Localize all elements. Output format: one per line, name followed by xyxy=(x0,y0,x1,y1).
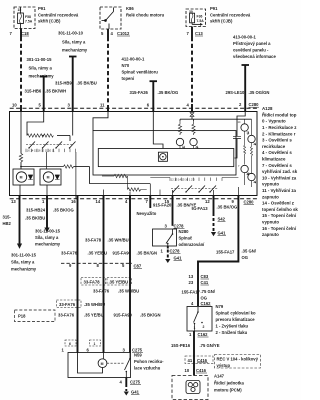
svg-text:315-FA26: 315-FA26 xyxy=(130,90,149,95)
svg-text:301-11-00-10: 301-11-00-10 xyxy=(58,31,84,36)
svg-text:315-HB24: 315-HB24 xyxy=(26,208,46,213)
svg-text:motoru (PCM): motoru (PCM) xyxy=(214,388,242,393)
svg-text:Síla, rámy a: Síla, rámy a xyxy=(62,40,86,45)
svg-text:.35 WH/BU: .35 WH/BU xyxy=(118,289,139,294)
svg-text:14 - Osvětlení z: 14 - Osvětlení z xyxy=(262,201,295,206)
wire label 33-FA78 boxed xyxy=(81,278,106,286)
terminal bar wire pin 2 xyxy=(242,64,250,66)
svg-text:155-FA17: 155-FA17 xyxy=(182,290,201,295)
svg-text:N79: N79 xyxy=(216,304,224,309)
svg-text:výstup: výstup xyxy=(217,363,231,368)
zener symbol under pin 4 xyxy=(190,113,194,117)
svg-text:topení: topení xyxy=(122,76,135,81)
splice box 6 xyxy=(65,340,76,346)
svg-text:OG: OG xyxy=(201,296,208,301)
wire motor to switch xyxy=(107,362,124,364)
note box REC V 104 xyxy=(215,355,261,369)
svg-text:412-00-00-1: 412-00-00-1 xyxy=(122,57,145,62)
motor M2 xyxy=(43,172,53,182)
svg-text:S42: S42 xyxy=(218,217,226,222)
capacitor C xyxy=(233,136,241,138)
lamp column branch 1 xyxy=(244,119,246,123)
svg-text:29S-LE10: 29S-LE10 xyxy=(226,90,246,95)
svg-text:OG: OG xyxy=(242,255,249,260)
wire fuse F36 to module pin 4 (dashed thick) xyxy=(191,27,193,38)
svg-text:33-FA78: 33-FA78 xyxy=(84,279,101,284)
svg-text:301-11-00-15: 301-11-00-15 xyxy=(11,253,37,258)
svg-text:P18: P18 xyxy=(18,314,26,319)
svg-text:C416: C416 xyxy=(196,368,207,373)
lamp branch resistor xyxy=(178,121,181,135)
svg-text:155-FA17: 155-FA17 xyxy=(216,250,235,255)
switch blades bank xyxy=(29,142,35,149)
svg-text:.35 WH/BU: .35 WH/BU xyxy=(108,237,129,242)
wire horizontal to right with resistor xyxy=(21,166,64,168)
internal wire from pin 2 xyxy=(237,111,245,136)
svg-text:41: 41 xyxy=(188,358,193,363)
svg-text:1 - Zvýšení tlaku: 1 - Zvýšení tlaku xyxy=(216,324,249,329)
svg-text:N59: N59 xyxy=(134,353,142,358)
svg-text:C278: C278 xyxy=(174,223,185,228)
svg-text:C416: C416 xyxy=(197,358,208,363)
wire pin 12 to ground xyxy=(213,195,215,216)
wire N280 to ground G41 xyxy=(167,246,169,249)
svg-text:Přístrojový panel a: Přístrojový panel a xyxy=(233,41,271,46)
svg-text:14: 14 xyxy=(96,199,101,204)
svg-text:klimatizace: klimatizace xyxy=(262,157,286,162)
wire inside to motor xyxy=(78,353,103,374)
svg-text:C18: C18 xyxy=(21,31,29,36)
wire label 33-FA76 boxed xyxy=(57,300,82,308)
wire label .35 YE/BU boxed xyxy=(107,278,132,286)
junction nodes on chain xyxy=(42,135,44,137)
svg-text:.35 YE/BU: .35 YE/BU xyxy=(88,251,108,256)
wire pin 13 to ground ref (arrow) xyxy=(19,195,21,244)
svg-text:16: 16 xyxy=(71,199,76,204)
svg-text:7.5A: 7.5A xyxy=(197,19,205,23)
svg-text:Síla, rámy a: Síla, rámy a xyxy=(11,260,35,265)
svg-text:Centrální rozvodová: Centrální rozvodová xyxy=(210,13,251,18)
svg-text:915-FA90: 915-FA90 xyxy=(114,313,133,318)
wire to M2 xyxy=(46,152,48,169)
relay contact blade xyxy=(105,20,107,22)
svg-text:Relé chodu motoru: Relé chodu motoru xyxy=(126,13,165,18)
motor M recirculation xyxy=(98,359,107,368)
svg-text:K86: K86 xyxy=(126,6,134,11)
svg-text:10 - Vyhřívání za: 10 - Vyhřívání za xyxy=(262,175,297,180)
svg-text:11: 11 xyxy=(100,103,105,108)
svg-text:Nevyužito: Nevyužito xyxy=(137,211,157,216)
internal wire from pin 4 xyxy=(191,111,193,113)
svg-text:.35 BK/OG: .35 BK/OG xyxy=(53,208,74,213)
svg-text:.35 BK/BU: .35 BK/BU xyxy=(25,216,45,221)
lamp L2 xyxy=(190,138,197,145)
svg-text:.35 WH/BU: .35 WH/BU xyxy=(84,302,105,307)
svg-text:Pohon recirku-: Pohon recirku- xyxy=(134,359,164,364)
wire pin 14 down xyxy=(103,195,105,353)
svg-text:mechanizmy: mechanizmy xyxy=(62,48,88,53)
svg-text:1: 1 xyxy=(94,342,96,346)
inline connector C87 dashes xyxy=(61,262,132,264)
svg-text:HB2: HB2 xyxy=(3,221,12,226)
internal wire from pin 5 xyxy=(27,111,44,136)
wire M1 to pin 13 xyxy=(19,185,21,199)
svg-text:P91: P91 xyxy=(210,6,218,11)
svg-text:Spínač: Spínač xyxy=(179,236,193,241)
svg-text:N280: N280 xyxy=(179,229,190,234)
takeout box P18 xyxy=(15,310,56,322)
switch position ticks xyxy=(26,149,75,152)
svg-text:C87: C87 xyxy=(134,264,142,269)
svg-text:M: M xyxy=(47,176,50,180)
svg-text:16 - Topení čelní: 16 - Topení čelní xyxy=(262,226,297,231)
PCM symbol xyxy=(186,381,200,394)
svg-text:23: 23 xyxy=(189,280,194,285)
svg-text:C278: C278 xyxy=(170,248,181,253)
motor M1 box xyxy=(13,169,34,185)
svg-text:G41: G41 xyxy=(218,231,227,236)
wire pin 7 stub (unused) xyxy=(149,195,151,208)
relay K86 box xyxy=(100,7,121,29)
svg-text:.35 BK/OG: .35 BK/OG xyxy=(217,204,238,209)
lamp L1 xyxy=(176,138,183,145)
terminal bar wire pin 6 (from N70) xyxy=(150,80,158,82)
lamp branch resistor xyxy=(193,119,195,121)
actuator N59 box xyxy=(68,353,131,378)
wire to module pin 3 xyxy=(72,57,74,112)
svg-text:všeobecná informace: všeobecná informace xyxy=(233,54,276,59)
internal wire from pin 6 xyxy=(153,111,163,149)
switch blade xyxy=(129,353,131,359)
wire bank to pin 16 xyxy=(75,152,77,199)
module A128 inner solid border xyxy=(10,112,258,196)
motor M2 box xyxy=(40,169,61,185)
svg-text:Centrální rozvodová: Centrální rozvodová xyxy=(38,13,79,18)
splice box 1 xyxy=(90,340,101,346)
wire jog down right xyxy=(90,167,151,184)
svg-text:lace vzduchu: lace vzduchu xyxy=(134,366,161,371)
svg-text:C162: C162 xyxy=(201,301,212,306)
svg-text:.35 YE/BU: .35 YE/BU xyxy=(84,313,104,318)
wire stub right bank xyxy=(222,177,238,179)
defrost switch N280 box xyxy=(153,229,177,246)
svg-text:N70: N70 xyxy=(122,63,130,68)
svg-text:.35 OG/GN: .35 OG/GN xyxy=(249,90,270,95)
svg-text:vypnuto: vypnuto xyxy=(262,220,279,225)
svg-text:REC V 104 - kolíkový: REC V 104 - kolíkový xyxy=(217,356,259,361)
svg-text:915-FA20: 915-FA20 xyxy=(153,203,172,208)
svg-text:33-FA78: 33-FA78 xyxy=(85,237,102,242)
svg-text:91-FA13: 91-FA13 xyxy=(192,206,209,211)
svg-text:10: 10 xyxy=(12,103,17,108)
svg-text:.35 BK/GN: .35 BK/GN xyxy=(137,251,157,256)
svg-text:2 - Snížení tlaku: 2 - Snížení tlaku xyxy=(216,330,248,335)
svg-text:C275: C275 xyxy=(130,380,141,385)
svg-text:P91: P91 xyxy=(38,6,46,11)
internal wires to bottom pins xyxy=(103,190,105,199)
N79 switch blade xyxy=(197,307,199,312)
svg-text:C280: C280 xyxy=(249,102,260,107)
PCM A147 box xyxy=(172,376,208,400)
wire M2 to pin 1 xyxy=(46,185,48,199)
lamp L6 xyxy=(248,173,255,180)
svg-text:315-HB6: 315-HB6 xyxy=(25,89,42,94)
svg-text:33-FA76: 33-FA76 xyxy=(58,313,75,318)
svg-text:Spínač cyklování ko: Spínač cyklování ko xyxy=(216,311,256,316)
resistor R (vertical) on pin10 branch xyxy=(19,154,22,163)
wire to module pin 2 xyxy=(244,65,246,111)
mode resistor chain xyxy=(27,134,53,137)
wire pin 4 to ground G41 xyxy=(125,378,127,385)
svg-text:G41: G41 xyxy=(174,256,183,261)
mechanical link dashed xyxy=(171,188,218,190)
wire pin 1 to ground ref (arrow) xyxy=(46,195,48,228)
svg-text:12 13 14 15 16 1 2 3: 12 13 14 15 16 1 2 3 xyxy=(171,178,195,182)
module A128 outer dashed border xyxy=(10,107,257,109)
svg-text:6: 6 xyxy=(69,342,71,346)
wire pin 16 down xyxy=(77,195,79,353)
svg-text:Síla, rámy a: Síla, rámy a xyxy=(35,235,59,240)
logic block inner rect xyxy=(98,149,234,167)
motor M1 xyxy=(16,172,26,182)
lamp column branch 2 xyxy=(251,119,253,135)
svg-text:315-HB9: 315-HB9 xyxy=(55,81,72,86)
wire fuse P91 to module pin 10 (dashed thick) xyxy=(20,29,22,38)
svg-text:2 - Klimatizace r: 2 - Klimatizace r xyxy=(262,131,296,136)
resistor under L3 xyxy=(244,132,246,165)
svg-text:Síla, rámy a: Síla, rámy a xyxy=(29,65,53,70)
svg-text:.35 BK/BU: .35 BK/BU xyxy=(77,81,97,86)
bottom resistor R2 (horizontal) xyxy=(128,188,147,191)
svg-text:C280: C280 xyxy=(244,200,255,205)
diode D2 xyxy=(55,175,60,180)
svg-text:16 14 15 16 10 11 10 11: 16 14 15 16 10 11 10 11 xyxy=(27,149,55,153)
wire pin 4 down xyxy=(129,195,131,353)
svg-text:mechanizmy: mechanizmy xyxy=(11,267,37,272)
connector box 41 C416 xyxy=(185,356,213,364)
svg-text:Spínač ventilátoru: Spínač ventilátoru xyxy=(122,70,159,75)
svg-text:A147: A147 xyxy=(214,374,225,379)
svg-text:.35 BK/OG: .35 BK/OG xyxy=(158,90,179,95)
lamp L4 xyxy=(241,165,248,172)
svg-text:12: 12 xyxy=(205,199,210,204)
fuse arrow out xyxy=(191,23,193,25)
wire to module pin 6 xyxy=(152,81,154,111)
switch blade N280 xyxy=(172,229,174,234)
resistor under L5 xyxy=(251,143,253,174)
svg-text:7 - Osvětlení s: 7 - Osvětlení s xyxy=(262,163,292,168)
fuse box P91 (CJB left) xyxy=(14,7,35,29)
svg-text:vypnuto: vypnuto xyxy=(262,182,279,187)
bottom selector ticks xyxy=(150,177,170,179)
junction node xyxy=(20,166,22,168)
lamp L5 xyxy=(248,135,255,142)
svg-text:F58: F58 xyxy=(25,15,31,19)
svg-text:odmrazování: odmrazování xyxy=(179,242,206,247)
svg-text:.35 GN/: .35 GN/ xyxy=(242,249,257,254)
pressure switch N79 box xyxy=(187,307,212,332)
svg-text:1 - Recirkulace z: 1 - Recirkulace z xyxy=(262,125,297,130)
svg-text:3 - Osvětlení s: 3 - Osvětlení s xyxy=(262,138,292,143)
svg-text:M: M xyxy=(101,362,104,366)
svg-text:skříň (CJB): skříň (CJB) xyxy=(38,19,61,24)
svg-text:4 - Osvětlení s: 4 - Osvětlení s xyxy=(262,150,292,155)
svg-text:7.5A: 7.5A xyxy=(25,20,33,24)
diode D1 xyxy=(28,175,33,180)
svg-text:.35 BK/WH: .35 BK/WH xyxy=(45,89,66,94)
svg-text:C83: C83 xyxy=(201,274,209,279)
wire relay to module pin 11 (dashed thick) xyxy=(107,29,109,37)
svg-text:.35 YE/BU: .35 YE/BU xyxy=(109,279,129,284)
wire N79 to PCM xyxy=(193,331,195,376)
svg-text:2: 2 xyxy=(203,325,205,329)
resistor R (horizontal) xyxy=(64,165,74,168)
wire to module pin 5 xyxy=(43,77,45,111)
svg-text:osvětlení panelu -: osvětlení panelu - xyxy=(233,48,269,53)
svg-text:10: 10 xyxy=(185,368,190,373)
svg-text:presoru klimatizace: presoru klimatizace xyxy=(216,317,256,322)
svg-text:Řídicí modul top: Řídicí modul top xyxy=(262,112,297,117)
svg-text:33-FA76: 33-FA76 xyxy=(61,251,78,256)
svg-text:.75 GN/: .75 GN/ xyxy=(201,289,216,294)
svg-text:M: M xyxy=(20,176,23,180)
svg-text:0 - Vypnuto: 0 - Vypnuto xyxy=(262,119,286,124)
svg-text:33-FA76: 33-FA76 xyxy=(59,302,76,307)
fuse F36 symbol xyxy=(190,13,195,23)
svg-text:C13: C13 xyxy=(195,31,203,36)
svg-text:915-FA90: 915-FA90 xyxy=(113,251,132,256)
svg-text:topení čelního sk: topení čelního sk xyxy=(262,207,298,212)
svg-text:33-FA76: 33-FA76 xyxy=(93,289,110,294)
svg-text:C41: C41 xyxy=(201,280,209,285)
svg-text:skříň (CJB): skříň (CJB) xyxy=(210,19,233,24)
svg-text:zapnuto: zapnuto xyxy=(262,194,279,199)
svg-text:C1012: C1012 xyxy=(117,31,130,36)
svg-text:mechanizmy: mechanizmy xyxy=(35,241,61,246)
IC symbol square xyxy=(158,152,167,161)
terminal bar wire pin 3 xyxy=(69,56,77,58)
fuse box P91 (CJB right) xyxy=(186,9,206,27)
internal wire from pin 3 xyxy=(72,111,74,136)
svg-text:.35 BK/GN: .35 BK/GN xyxy=(140,313,160,318)
svg-text:A128: A128 xyxy=(262,106,273,111)
svg-text:Řídicí jednotka: Řídicí jednotka xyxy=(214,381,244,386)
bottom switch blades xyxy=(173,186,179,193)
svg-text:301-11-00-15: 301-11-00-15 xyxy=(27,57,53,62)
svg-text:15S-PE16: 15S-PE16 xyxy=(171,343,191,348)
svg-text:413-00-00-1: 413-00-00-1 xyxy=(233,35,256,40)
mechanical link dashed xyxy=(26,144,73,146)
svg-text:recirkulace: recirkulace xyxy=(262,144,286,149)
svg-text:301-11-00-15: 301-11-00-15 xyxy=(35,228,61,233)
fuse F58 symbol xyxy=(18,13,24,24)
svg-text:G41: G41 xyxy=(131,390,140,395)
svg-text:13: 13 xyxy=(11,199,16,204)
svg-text:15 - Topení čelní: 15 - Topení čelní xyxy=(262,213,297,218)
internal wire pin 11 to logic block xyxy=(93,111,108,131)
fuse F58 stubs xyxy=(20,7,22,13)
lamp L3 xyxy=(241,124,248,131)
svg-text:vyhřívání zad. sk: vyhřívání zad. sk xyxy=(262,169,298,174)
bottom resistor R (horizontal) xyxy=(102,175,114,177)
internal wire from pin 10 xyxy=(20,111,22,154)
svg-text:.75 GN/YE: .75 GN/YE xyxy=(200,343,220,348)
svg-text:11 - Vyhřívání za: 11 - Vyhřívání za xyxy=(262,188,297,193)
svg-text:315-: 315- xyxy=(3,215,12,220)
svg-text:13: 13 xyxy=(189,274,194,279)
wire pin 15 to N280 xyxy=(172,195,174,226)
svg-text:zapnuto: zapnuto xyxy=(262,232,279,237)
wire pin 9 L-shape to N79 xyxy=(198,195,238,306)
logic block outer rect xyxy=(93,131,236,175)
terminal bar wire pin 5 xyxy=(40,76,48,78)
svg-text:C162: C162 xyxy=(198,332,209,337)
